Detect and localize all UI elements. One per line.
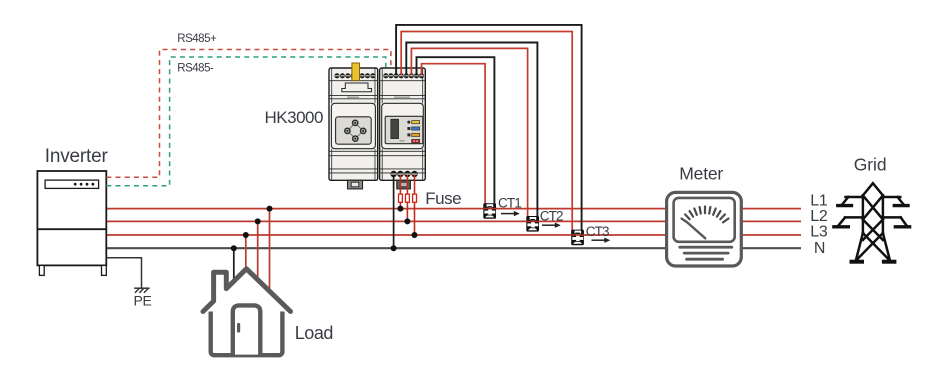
svg-text:HK3000: HK3000 xyxy=(265,108,323,127)
U1 micro face label xyxy=(400,140,405,141)
U1 horizontal frame lines xyxy=(329,81,425,173)
energy meter module U1 HK3000 xyxy=(329,63,425,189)
U1 LCD screen xyxy=(391,119,399,138)
U1 connector pins xyxy=(344,120,367,143)
wire fuse N drop xyxy=(393,175,395,249)
wire RS485+ (red dashed) xyxy=(106,50,391,178)
U1 DIN clip right xyxy=(397,180,411,189)
svg-text:RS485-: RS485- xyxy=(177,63,214,75)
U1 LED yellow xyxy=(407,121,410,124)
junction dot L3/meter-tap xyxy=(412,232,418,238)
junction dot L2/load xyxy=(255,218,261,224)
U1 left face panel xyxy=(331,103,375,148)
U1 right terminal screws (pins 1-8) xyxy=(383,73,424,78)
fuse F1 xyxy=(399,194,403,202)
U1 left module body xyxy=(329,68,378,180)
svg-text:Load: Load xyxy=(295,323,333,343)
junction dot L1/meter-tap xyxy=(397,206,403,212)
U1 LED orange xyxy=(407,133,410,136)
inverter xyxy=(37,171,106,275)
U1 micro label right xyxy=(394,97,410,98)
arrow CT1 xyxy=(501,211,520,216)
wire RS485- (green dashed) xyxy=(106,57,386,186)
svg-text:CT3: CT3 xyxy=(586,224,609,239)
wire CT3 black pair (terminal 3) xyxy=(396,25,581,232)
wire CT1 black pair (terminal 7) xyxy=(417,57,495,205)
U1 yellow jumper block xyxy=(352,63,360,81)
wire load drop L3 xyxy=(245,235,247,276)
U1 LED blue xyxy=(407,127,410,130)
wire fuse L1 drop xyxy=(399,175,401,209)
meter M1 xyxy=(667,192,742,266)
junction dot N/meter-tap xyxy=(391,245,397,251)
svg-text:CT2: CT2 xyxy=(540,209,563,224)
U1 left terminal screws (pins 9-14) xyxy=(334,73,375,78)
wire fuse L3 drop xyxy=(414,175,416,236)
svg-text:Meter: Meter xyxy=(679,164,723,184)
U1 right face panel xyxy=(382,103,424,148)
wire L2 (red bus) xyxy=(106,220,801,222)
svg-text:L3: L3 xyxy=(810,224,828,241)
wire L1 (red bus) xyxy=(106,208,801,210)
svg-text:Fuse: Fuse xyxy=(425,189,461,208)
wire CT3 red pair (terminal 4) xyxy=(401,32,572,236)
current transformer CT2 xyxy=(526,216,539,232)
fuse F3 xyxy=(413,194,417,202)
junction dot L1/load xyxy=(267,206,273,212)
U1 module side wall lines xyxy=(332,68,423,180)
junction dot L3/load xyxy=(243,232,249,238)
inverter indicator dots xyxy=(74,183,95,186)
fuse F2 xyxy=(406,194,410,202)
wire load drop L2 xyxy=(257,221,259,288)
svg-text:Grid: Grid xyxy=(854,155,887,175)
U1 right module body xyxy=(380,68,426,180)
meter M1 lines xyxy=(680,247,732,259)
wire load drop L1 xyxy=(269,209,271,298)
wire CT2 black pair (terminal 5) xyxy=(406,43,537,219)
meter M1 tick arc xyxy=(682,207,729,223)
U1 micro label left xyxy=(347,97,359,98)
svg-text:CT1: CT1 xyxy=(498,196,521,211)
junction dot L2/meter-tap xyxy=(404,218,410,224)
U1 connector recess xyxy=(336,117,372,144)
arrow CT2 xyxy=(542,223,561,228)
U1 connector diamond link xyxy=(347,123,363,139)
meter M1 needle xyxy=(686,222,705,239)
U1 button red xyxy=(412,139,420,142)
wire N (grey bus) xyxy=(106,247,801,249)
current transformer CT1 xyxy=(483,203,496,219)
U1 bottom terminal screws (pins N L1 L2 L3) xyxy=(390,171,417,177)
load house icon xyxy=(203,269,291,355)
svg-text:N: N xyxy=(814,240,825,257)
junction dot N/load xyxy=(231,245,237,251)
svg-text:L1: L1 xyxy=(810,193,828,210)
ground symbol PE xyxy=(134,288,149,293)
U1 plug cover xyxy=(342,83,372,92)
wire CT1 red pair (terminal 8) xyxy=(422,64,486,209)
wire CT2 red pair (terminal 6) xyxy=(411,48,527,221)
arrow CT3 xyxy=(592,238,611,243)
wire fuse L2 drop xyxy=(406,175,408,222)
svg-text:Inverter: Inverter xyxy=(45,146,109,167)
U1 DIN clip left xyxy=(348,180,363,189)
svg-text:RS485+: RS485+ xyxy=(177,33,217,45)
wire PE xyxy=(106,258,141,288)
current transformer CT3 xyxy=(571,230,584,246)
svg-text:PE: PE xyxy=(134,292,152,308)
grid tower xyxy=(834,183,910,262)
wire load drop N xyxy=(233,248,235,284)
wire L3 (red bus) xyxy=(106,234,801,236)
U1 display recess xyxy=(385,116,423,143)
